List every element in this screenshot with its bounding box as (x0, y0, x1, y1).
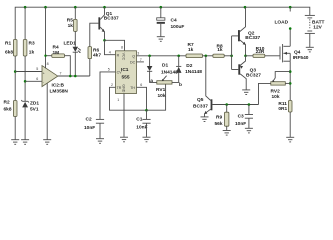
wire V+ top rail (15, 7, 310, 39)
svg-text:10nF: 10nF (84, 125, 95, 131)
wire C1 to ground (146, 123, 148, 137)
wire 555 TH pin 6 down (137, 87, 147, 110)
battery BATT 12V (305, 15, 325, 47)
svg-text:8: 8 (47, 62, 49, 66)
wire emitters to R10 (246, 55, 254, 57)
resistor R1 (5, 40, 17, 57)
node base net/C3 junction (248, 103, 251, 106)
svg-text:10k: 10k (158, 93, 166, 99)
ground under battery (306, 47, 314, 52)
resistor R4 (46, 45, 65, 58)
node output/LED1 junction (74, 75, 77, 78)
svg-text:4: 4 (109, 51, 111, 55)
wire 555 GND pin 1 to ground (123, 94, 125, 137)
svg-text:R4: R4 (53, 45, 59, 51)
svg-text:CV: CV (117, 71, 123, 75)
svg-text:C4: C4 (171, 17, 177, 23)
wire 555 CV pin 5 to C2 (100, 72, 116, 119)
node pin3/D1 junction (148, 55, 151, 58)
svg-text:D1: D1 (162, 63, 168, 69)
resistor R9 (215, 105, 229, 127)
svg-text:Q5: Q5 (197, 97, 204, 103)
svg-text:10nF: 10nF (136, 125, 147, 131)
wire R4 right lead down to output (65, 56, 71, 76)
LED LED1 (64, 41, 81, 53)
svg-text:1k: 1k (217, 47, 223, 53)
capacitor C1 (136, 110, 150, 130)
svg-text:1M: 1M (53, 50, 60, 56)
svg-text:R11: R11 (278, 101, 287, 107)
ground under R11 (286, 137, 294, 142)
svg-text:IRF540: IRF540 (293, 55, 309, 61)
node rail junction dots (24, 6, 292, 9)
wire op-amp pin 4 to ground (46, 83, 48, 139)
wire op-amp -input (pin 6) (25, 80, 42, 82)
node Q1 emitter junction (103, 39, 106, 42)
svg-text:7: 7 (140, 58, 142, 62)
node push-pull emitter junction (244, 55, 247, 58)
resistor R7 (186, 42, 203, 58)
svg-text:1k: 1k (188, 47, 194, 53)
svg-text:5: 5 (108, 68, 110, 72)
svg-text:BC337: BC337 (104, 16, 119, 22)
wire R10 to Q4 gate (265, 55, 280, 57)
svg-text:TH: TH (130, 86, 135, 90)
wire C2 to ground (99, 123, 101, 138)
MOSFET Q4 IRF540 (280, 44, 309, 62)
svg-text:R9: R9 (216, 115, 222, 121)
wire timing net to RV1 wiper (147, 84, 166, 110)
wire Q4 drain up to LOAD (289, 29, 291, 47)
svg-text:5: 5 (36, 67, 38, 71)
svg-text:BC337: BC337 (193, 104, 208, 110)
svg-text:LM358N: LM358N (50, 89, 69, 95)
node base net/R9 junction (225, 103, 228, 106)
svg-text:b: b (179, 82, 182, 88)
wire D1 cathode to RV1 left (node a) (150, 71, 157, 82)
wire C4 to ground (160, 24, 162, 37)
node output/R4 junction (69, 75, 72, 78)
ground under 555 pin 1 (120, 137, 128, 142)
wire Q1 emitter to 555 VCC pin 8 (105, 40, 125, 51)
ground under C3 (245, 128, 253, 133)
ground under R2 (11, 140, 19, 145)
resistor R3 (23, 40, 35, 57)
ground under Q3 collector (242, 90, 250, 95)
svg-text:Q4: Q4 (294, 50, 301, 56)
svg-text:R7: R7 (188, 42, 194, 48)
svg-text:555: 555 (122, 74, 130, 80)
wire ZD1 to ground (24, 107, 26, 139)
wire D2 anode to RV1 right (node b) (172, 73, 179, 83)
svg-text:7: 7 (60, 72, 62, 76)
wire source to RV2 wiper (275, 72, 290, 78)
wire Q4 source down (289, 61, 291, 100)
wire R1 bottom to R2 (14, 56, 16, 101)
wire C3 to ground (248, 118, 250, 128)
svg-text:BC337: BC337 (245, 35, 260, 41)
wire R5 top (74, 7, 76, 19)
svg-text:R1: R1 (5, 41, 11, 47)
LOAD terminals (275, 7, 292, 30)
node R1/R2 junction (14, 70, 17, 73)
wire 555 output pin 3 run (137, 55, 187, 57)
svg-text:+: + (43, 71, 45, 75)
svg-text:1N4148: 1N4148 (161, 69, 178, 75)
wire C4 column (160, 7, 162, 18)
svg-text:IC2:B: IC2:B (52, 83, 65, 89)
svg-text:6: 6 (36, 77, 38, 81)
wire 555 DC pin 7 stub (137, 61, 144, 63)
svg-text:TR: TR (117, 86, 122, 90)
zener ZD1 (21, 100, 39, 113)
resistor R11 (278, 101, 292, 113)
svg-text:LED1: LED1 (64, 41, 77, 47)
wire R3 top (24, 7, 26, 39)
svg-text:GND: GND (122, 84, 126, 92)
svg-text:IC1: IC1 (121, 67, 129, 73)
wire R9 to ground (226, 126, 228, 130)
IC1 555 timer (108, 46, 142, 103)
wire R6 top to Q1 base (90, 23, 99, 46)
resistor R8 (213, 44, 224, 58)
wire Q1 emitter to 555 reset pin 4 (105, 40, 116, 54)
transistor Q5 BC337 (193, 97, 212, 117)
svg-text:12V: 12V (313, 25, 322, 31)
svg-text:6k8: 6k8 (5, 50, 13, 56)
svg-text:LOAD: LOAD (275, 20, 289, 26)
transistor Q3 BC327 (238, 56, 261, 90)
svg-text:1k: 1k (29, 50, 35, 56)
svg-text:6: 6 (140, 83, 142, 87)
svg-text:R2: R2 (4, 100, 10, 106)
preset RV1 10k (156, 76, 172, 99)
svg-text:8: 8 (121, 46, 123, 50)
node TR/TH/C1 junction (145, 109, 148, 112)
svg-text:BC327: BC327 (246, 72, 261, 78)
wire LED1 to output (74, 52, 76, 76)
transistor Q2 BC337 (238, 7, 261, 56)
transistor Q1 BC337 (98, 7, 119, 40)
wire R5 to LED1 (74, 31, 76, 46)
node R3/ZD1 junction (24, 80, 27, 83)
svg-text:R3: R3 (29, 41, 35, 47)
ground under C4 (157, 37, 165, 42)
node source/RV2 junction (289, 82, 292, 85)
op-amp U1 IC2:B LM358N (36, 62, 68, 95)
svg-text:C3: C3 (238, 114, 244, 120)
node base tree junction (230, 55, 233, 58)
wire R3 bottom to ZD1 (24, 56, 26, 101)
wire output up to R6 (89, 59, 91, 76)
capacitor C4 100uF (157, 17, 185, 30)
ground under op-amp pin 4 (43, 140, 51, 145)
node source/wiper junction (289, 70, 292, 73)
svg-text:6k8: 6k8 (4, 107, 12, 113)
svg-text:a: a (150, 79, 153, 84)
svg-text:RV1: RV1 (156, 87, 166, 93)
wire R2 to ground (14, 117, 16, 140)
svg-text:0R1: 0R1 (278, 106, 287, 112)
svg-text:DC: DC (130, 61, 136, 65)
resistor R5 (67, 18, 77, 32)
wire R8 to base tree (224, 55, 231, 57)
diode D1 1N4148 (147, 56, 178, 76)
resistor R10 (253, 46, 265, 58)
svg-text:10nF: 10nF (235, 121, 246, 127)
svg-text:Q: Q (132, 55, 135, 59)
ground under ZD1 (21, 140, 29, 145)
svg-text:D2: D2 (186, 63, 192, 69)
svg-text:1k: 1k (68, 23, 74, 29)
node pin3/D2 junction (177, 55, 180, 58)
ground under R9 (223, 131, 231, 136)
capacitor C2 (84, 117, 104, 132)
resistor R2 (4, 100, 18, 117)
capacitor C3 (235, 105, 253, 128)
svg-text:56k: 56k (215, 121, 223, 127)
node R7/R8/Q5 collector junction (205, 55, 208, 58)
wire RV2 left to Q5 base net (259, 83, 271, 104)
wire op-amp V+ pin 8 from rail (45, 7, 47, 68)
svg-text:ZD1: ZD1 (30, 101, 39, 107)
svg-text:C2: C2 (86, 117, 92, 123)
svg-text:VCC: VCC (122, 53, 126, 61)
wire 555 TR pin 2 down (110, 87, 147, 110)
preset RV2 10k (271, 78, 291, 100)
wire Q5 base net (212, 104, 258, 106)
svg-text:10k: 10k (272, 94, 280, 100)
svg-text:1N4148: 1N4148 (185, 69, 202, 75)
ground under Q5 emitter (201, 117, 209, 122)
svg-text:R: R (117, 53, 120, 57)
wire op-amp output run (58, 75, 90, 77)
wire R7 to R8 (203, 55, 213, 57)
svg-text:4k7: 4k7 (93, 53, 101, 59)
svg-text:R5: R5 (67, 18, 73, 24)
wire Q5 collector (206, 56, 211, 101)
ground under C1 (143, 137, 151, 142)
node R4 left junction on pin8 wire (44, 55, 46, 57)
svg-text:R6: R6 (93, 47, 99, 53)
wire R11 to ground (289, 112, 291, 137)
ground under C2 (96, 139, 104, 144)
svg-text:3: 3 (137, 52, 139, 56)
diode D2 1N4148 (176, 56, 202, 75)
svg-text:5V1: 5V1 (30, 107, 39, 113)
svg-text:100uF: 100uF (171, 24, 185, 30)
svg-text:C1: C1 (136, 117, 142, 123)
svg-text:2: 2 (111, 83, 113, 87)
resistor R6 (88, 47, 101, 59)
svg-text:22R: 22R (256, 49, 265, 55)
svg-text:RV2: RV2 (271, 88, 281, 94)
wire Q2/Q3 base tree (232, 36, 239, 70)
svg-text:1: 1 (117, 98, 119, 102)
wire op-amp +input (pin 5) (15, 71, 42, 73)
